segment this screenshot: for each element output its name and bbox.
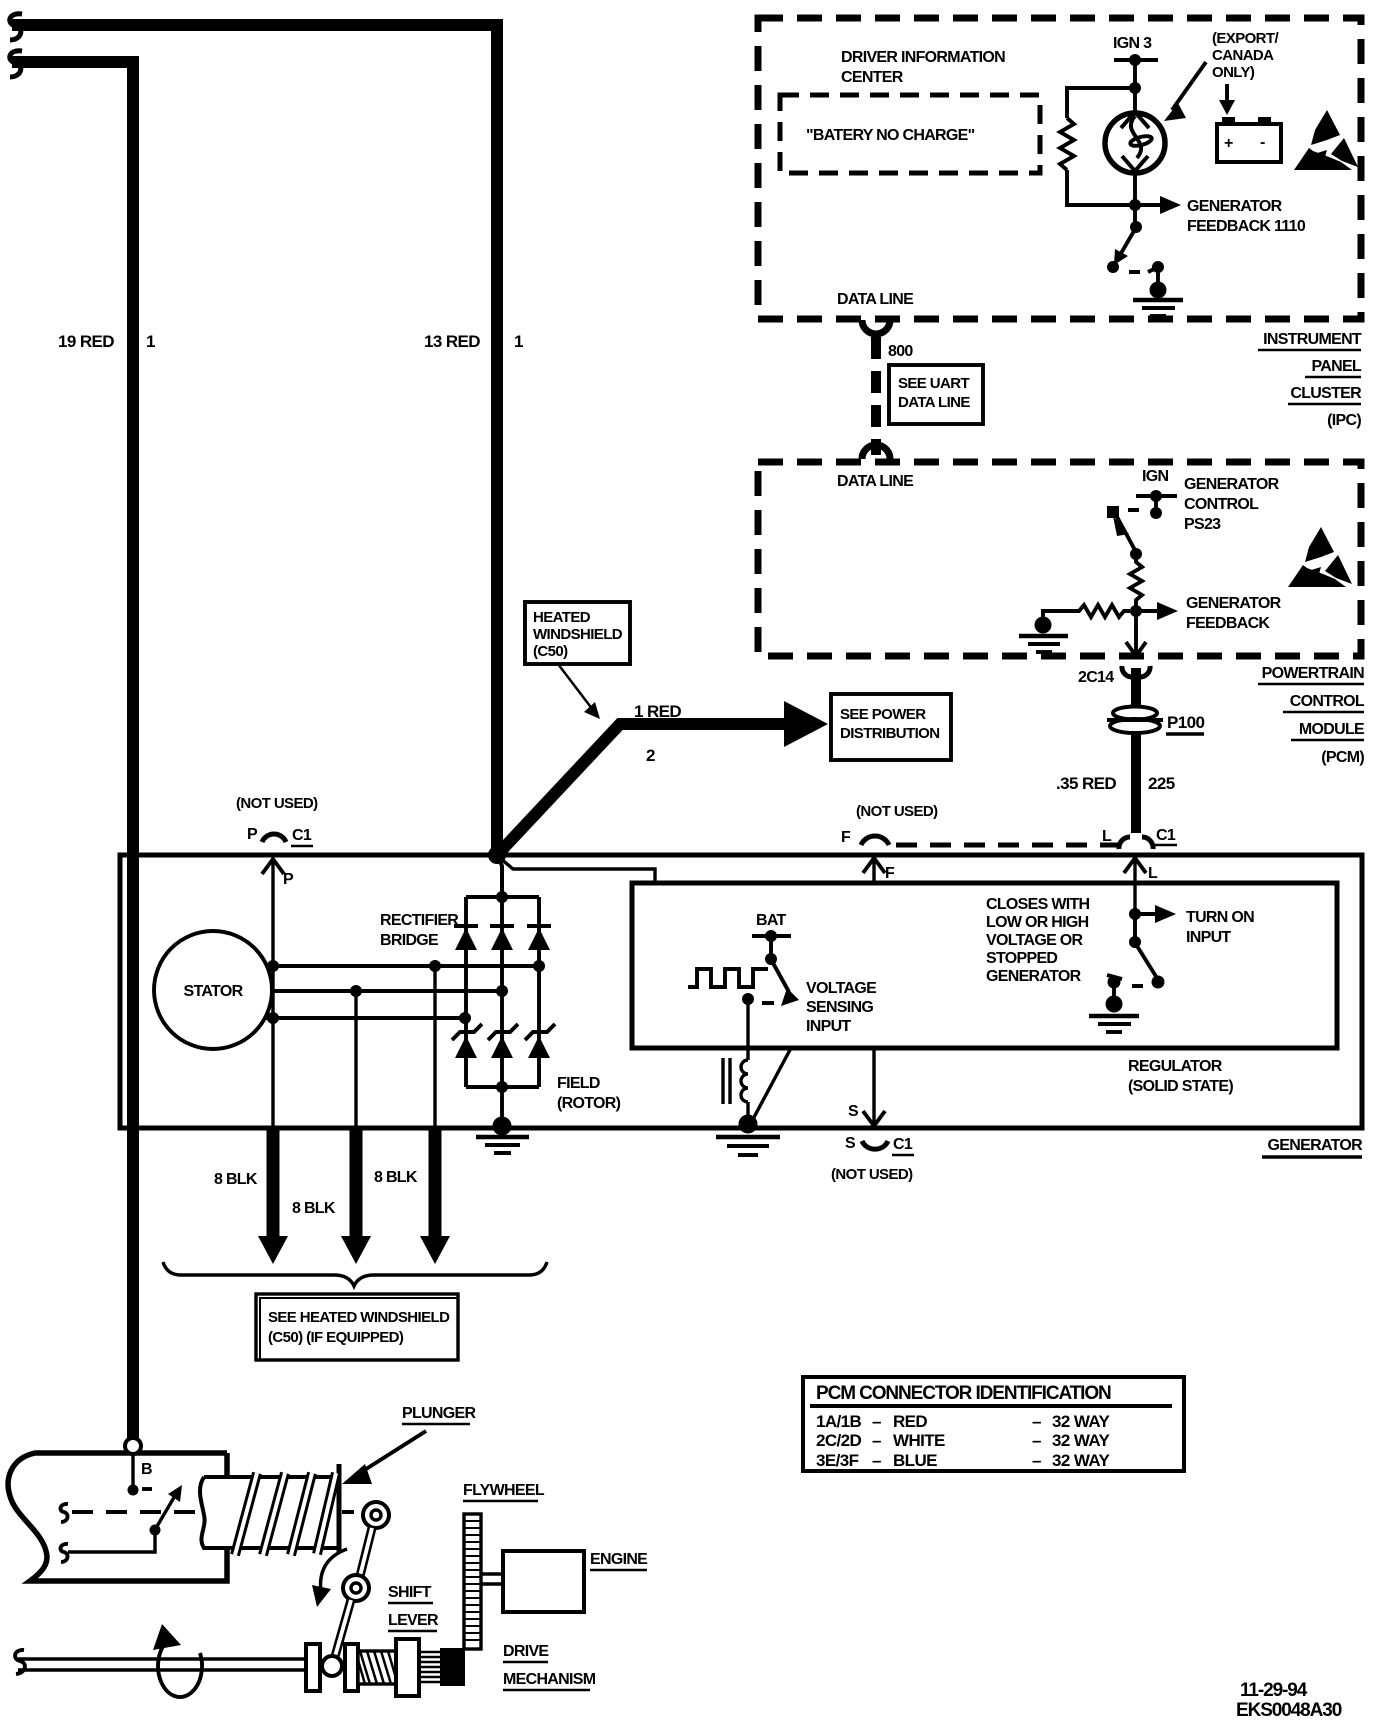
wire S-hook lower contact [61, 1544, 68, 1562]
shift lever lower pivot [343, 1575, 369, 1601]
svg-text:CONTROL: CONTROL [1290, 693, 1365, 710]
wire 1 RED to power distribution (thick with arrow) [499, 701, 828, 853]
svg-text:POWERTRAIN: POWERTRAIN [1262, 665, 1364, 682]
connector 800 half-circle (PCM side) [862, 445, 890, 459]
svg-text:HEATED: HEATED [533, 609, 591, 626]
label FLYWHEEL [463, 1482, 545, 1501]
svg-text:(PCM): (PCM) [1321, 749, 1364, 766]
svg-text:INSTRUMENT: INSTRUMENT [1263, 331, 1362, 348]
svg-text:-: - [1260, 134, 1265, 151]
node junction 13RED/1RED at generator top [488, 846, 506, 864]
stator [154, 931, 272, 1049]
svg-text:SHIFT: SHIFT [388, 1584, 432, 1601]
svg-text:2C/2D: 2C/2D [816, 1431, 862, 1450]
resistor PCM horizontal [1063, 605, 1130, 617]
arrow shaft rotation [153, 1624, 202, 1697]
wire feedback arrow right [1135, 196, 1181, 214]
wire junction to regulator top [500, 858, 655, 882]
svg-text:STOPPED: STOPPED [986, 950, 1057, 967]
svg-text:–: – [1032, 1431, 1041, 1450]
svg-text:(C50): (C50) [533, 643, 568, 660]
svg-text:LEVER: LEVER [388, 1612, 439, 1629]
callout SEE POWER DISTRIBUTION [831, 694, 951, 760]
node phase dots [267, 960, 441, 1024]
svg-text:F: F [841, 829, 851, 846]
node PCM feedback junction [1130, 605, 1142, 617]
svg-text:"BATERY NO CHARGE": "BATERY NO CHARGE" [806, 127, 975, 144]
wire S-hook upper contact [61, 1504, 68, 1522]
svg-text:FEEDBACK: FEEDBACK [1186, 615, 1270, 632]
wire 800 UART data line (thick dashed) [871, 337, 881, 455]
wire switch to ground [1156, 267, 1160, 285]
svg-text:8 BLK: 8 BLK [374, 1169, 418, 1186]
resistor PCM vertical [1130, 554, 1142, 608]
svg-text:REGULATOR: REGULATOR [1128, 1058, 1223, 1075]
svg-text:PS23: PS23 [1184, 516, 1221, 533]
svg-text:(NOT USED): (NOT USED) [831, 1166, 913, 1183]
label DRIVER INFORMATION CENTER [841, 49, 1005, 86]
svg-text:C1: C1 [1156, 827, 1176, 844]
svg-text:SEE UART: SEE UART [898, 375, 969, 392]
svg-text:.35 RED: .35 RED [1056, 774, 1116, 793]
svg-text:225: 225 [1148, 774, 1175, 793]
svg-text:8 BLK: 8 BLK [292, 1200, 336, 1217]
node IGN 3 terminal [1113, 35, 1158, 66]
svg-text:FLYWHEEL: FLYWHEEL [463, 1482, 545, 1499]
coil winding 1 [235, 1473, 257, 1555]
svg-text:F: F [885, 865, 895, 882]
label GENERATOR FEEDBACK (PCM) [1186, 595, 1282, 632]
svg-text:IGN 3: IGN 3 [1113, 35, 1152, 52]
label 13 RED 1 [424, 332, 523, 351]
wire rectifier to case ground [500, 1087, 504, 1126]
svg-text:GENERATOR: GENERATOR [1184, 476, 1280, 493]
svg-text:(IPC): (IPC) [1327, 412, 1361, 429]
wire PCM node down to 2C14 [1126, 611, 1146, 656]
label VOLTAGE SENSING INPUT [806, 980, 877, 1035]
drive splines [419, 1648, 465, 1686]
svg-text:–: – [1032, 1451, 1041, 1470]
callout SEE HEATED WINDSHIELD (C50) (IF EQUIPPED) [256, 1294, 458, 1360]
pivot ball [322, 1656, 342, 1676]
shift lever upper pivot [363, 1502, 389, 1528]
node B terminal [125, 1438, 152, 1496]
wire IGN down [1154, 496, 1158, 513]
svg-text:BRIDGE: BRIDGE [380, 932, 439, 949]
ESD symbol (IPC) [1294, 110, 1358, 170]
callout SEE UART DATA LINE [889, 365, 983, 424]
svg-text:L: L [1148, 865, 1158, 882]
label DRIVE MECHANISM [503, 1643, 596, 1690]
svg-text:PLUNGER: PLUNGER [402, 1405, 476, 1422]
node lamp top junction [1129, 82, 1141, 94]
svg-text:1A/1B: 1A/1B [816, 1412, 862, 1431]
wire dropper C (8 BLK) [433, 966, 436, 1128]
wire sensing to ground with field coil [723, 999, 748, 1122]
diode D6 bottom (avalanche) [525, 1024, 555, 1058]
wire to regulator ground [1112, 982, 1116, 1000]
brace harness group [163, 1262, 547, 1286]
svg-text:DRIVER INFORMATION: DRIVER INFORMATION [841, 49, 1005, 66]
svg-text:LOW OR HIGH: LOW OR HIGH [986, 914, 1089, 931]
connector 800 half-circle (IPC side) [862, 320, 890, 334]
svg-text:MODULE: MODULE [1299, 721, 1365, 738]
svg-text:SEE POWER: SEE POWER [840, 706, 926, 723]
arrow export to battery [1219, 84, 1235, 115]
ground generator case [476, 1117, 529, 1154]
svg-text:1: 1 [146, 332, 155, 351]
wire 8 BLK arrow B [341, 1128, 371, 1264]
svg-text:B: B [141, 1461, 152, 1478]
shift lever link [360, 1528, 372, 1576]
label EXPORT/CANADA ONLY [1212, 30, 1279, 81]
svg-text:C1: C1 [292, 827, 312, 844]
wire P100 to C1 (thick, .35 RED 225) [1131, 733, 1141, 833]
regulator box [632, 883, 1337, 1048]
wire 19 RED feed (thick, to starter B terminal) [10, 51, 133, 1438]
svg-text:DRIVE: DRIVE [503, 1643, 549, 1660]
ground PCM [1019, 617, 1068, 653]
svg-text:BLUE: BLUE [893, 1451, 937, 1470]
node BAT terminal [752, 912, 791, 942]
engine box [503, 1551, 584, 1612]
label INSTRUMENT PANEL CLUSTER (IPC) [1258, 331, 1362, 429]
svg-text:TURN ON: TURN ON [1186, 909, 1254, 926]
resistor R lamp shunt [1060, 118, 1074, 170]
diode D2 top [490, 926, 514, 950]
flywheel gear [464, 1514, 481, 1649]
switch starter solenoid contacts [68, 1485, 182, 1552]
starter solenoid housing [8, 1453, 227, 1581]
svg-text:P100: P100 [1167, 713, 1204, 732]
wire 8 BLK arrow A [258, 1128, 288, 1264]
svg-text:IGN: IGN [1142, 468, 1168, 485]
connector S C1 (not used) [831, 1135, 914, 1183]
generator box [120, 855, 1362, 1128]
svg-text:CANADA: CANADA [1212, 47, 1274, 64]
coil winding 2 [263, 1473, 285, 1555]
wire P into generator [262, 859, 294, 1128]
label ENGINE [590, 1551, 648, 1570]
svg-text:13 RED: 13 RED [424, 332, 480, 351]
waveform PWM symbol [688, 969, 768, 987]
collar 1 [306, 1644, 320, 1691]
node generator feedback junction [1129, 199, 1141, 211]
wire second to ground (diagonal) [752, 1048, 791, 1121]
connector P C1 (not used) [236, 795, 318, 846]
wire 2C14 to P100 (thick) [1131, 668, 1141, 706]
arrow curved (plunger motion) [312, 1549, 347, 1607]
switch voltage sensing [742, 953, 799, 1006]
node below switch [1130, 548, 1142, 560]
ground IPC [1133, 282, 1183, 317]
arrow heated windshield callout [558, 664, 600, 719]
label PLUNGER with arrow [342, 1405, 476, 1484]
svg-text:1 RED: 1 RED [634, 702, 681, 721]
table PCM connector identification [803, 1377, 1184, 1471]
diode D4 bottom (avalanche) [452, 1024, 482, 1058]
switch generator control PS23 [1107, 506, 1162, 552]
svg-text:S: S [845, 1135, 856, 1152]
svg-text:32 WAY: 32 WAY [1052, 1451, 1110, 1470]
svg-text:RED: RED [893, 1412, 927, 1431]
label GENERATOR CONTROL PS23 [1184, 476, 1280, 533]
svg-text:WINDSHIELD: WINDSHIELD [533, 626, 623, 643]
wire S exit [848, 1048, 885, 1126]
svg-text:CENTER: CENTER [841, 69, 904, 86]
diode D1 top [454, 926, 478, 950]
node turn on tap [1129, 908, 1141, 920]
svg-text:(C50) (IF EQUIPPED): (C50) (IF EQUIPPED) [268, 1329, 404, 1346]
svg-text:3E/3F: 3E/3F [816, 1451, 859, 1470]
svg-text:–: – [872, 1451, 881, 1470]
lamp charge indicator [1105, 88, 1165, 205]
label TURN ON INPUT [1186, 909, 1254, 946]
svg-text:DATA LINE: DATA LINE [898, 394, 970, 411]
svg-text:STATOR: STATOR [184, 983, 244, 1000]
wire solenoid axis dashed [72, 1510, 364, 1514]
label RECTIFIER BRIDGE [380, 912, 459, 949]
label GENERATOR FEEDBACK 110 [1187, 198, 1306, 235]
drive clutch hatched [358, 1651, 396, 1684]
label 19 RED 1 [58, 332, 155, 351]
wire node to switch [1133, 205, 1137, 227]
svg-text:PCM CONNECTOR IDENTIFICATION: PCM CONNECTOR IDENTIFICATION [816, 1383, 1111, 1404]
svg-text:800: 800 [888, 343, 913, 360]
coil end plate [337, 1464, 342, 1553]
svg-text:(EXPORT/: (EXPORT/ [1212, 30, 1279, 47]
svg-text:–: – [872, 1412, 881, 1431]
switch turn on [1107, 914, 1165, 989]
telltale message dashed box "BATERY NO CHARGE" [780, 95, 1040, 173]
wire harness dashed line F to L [896, 843, 1118, 848]
collar 2 [345, 1644, 358, 1691]
engine coupling shaft [481, 1574, 503, 1584]
wire feedback arrow right (PCM) [1136, 602, 1178, 620]
node rectifier column taps [459, 960, 545, 1024]
label .35 RED 225 [1056, 774, 1175, 793]
svg-text:2: 2 [646, 746, 655, 765]
powertrain control module dashed box [758, 462, 1361, 656]
svg-text:EKS0048A30: EKS0048A30 [1236, 1700, 1342, 1721]
svg-text:19 RED: 19 RED [58, 332, 114, 351]
svg-text:MECHANISM: MECHANISM [503, 1671, 596, 1688]
wire L entry [1124, 858, 1158, 914]
wire BAT down [769, 936, 773, 959]
wire rectifier feed from junction [498, 856, 502, 897]
wire turn on arrow [1135, 905, 1176, 923]
svg-text:C1: C1 [893, 1136, 913, 1153]
wire F entry [863, 858, 895, 883]
svg-text:S: S [848, 1103, 859, 1120]
wire resistor to ground (PCM) [1043, 611, 1063, 620]
svg-text:PANEL: PANEL [1311, 358, 1361, 375]
svg-text:1: 1 [514, 332, 523, 351]
rectifier bridge rails [466, 891, 539, 1093]
ground regulator left [716, 1115, 780, 1156]
label REGULATOR (SOLID STATE) [1128, 1058, 1233, 1095]
shift lever lower link [334, 1600, 351, 1660]
svg-text:–: – [872, 1431, 881, 1450]
coil winding 3 [291, 1473, 312, 1555]
label FIELD (ROTOR) [557, 1075, 621, 1112]
svg-text:DATA LINE: DATA LINE [837, 473, 914, 490]
svg-text:DATA LINE: DATA LINE [837, 291, 914, 308]
svg-text:ONLY): ONLY) [1212, 64, 1255, 81]
svg-text:L: L [1102, 828, 1112, 845]
collar 3 [396, 1639, 419, 1696]
svg-text:DISTRIBUTION: DISTRIBUTION [840, 725, 939, 742]
svg-text:2C14: 2C14 [1078, 669, 1114, 686]
svg-text:+: + [1224, 135, 1233, 152]
connector 2C14 [1078, 666, 1150, 686]
svg-text:INPUT: INPUT [806, 1018, 851, 1035]
instrument panel cluster dashed box [758, 18, 1361, 319]
label CLOSES WITH LOW OR HIGH VOLTAGE OR STOPPED GENERATOR [986, 896, 1090, 985]
svg-text:GENERATOR: GENERATOR [1186, 595, 1282, 612]
solenoid coil body [200, 1477, 339, 1548]
callout HEATED WINDSHIELD (C50) [525, 602, 630, 664]
svg-text:32 WAY: 32 WAY [1052, 1431, 1110, 1450]
svg-text:P: P [283, 871, 294, 888]
svg-text:FEEDBACK 1110: FEEDBACK 1110 [1187, 218, 1306, 235]
svg-text:INPUT: INPUT [1186, 929, 1231, 946]
coil winding 4 [317, 1473, 336, 1554]
label 1 RED / 2 [634, 702, 681, 765]
ESD symbol (PCM) [1288, 527, 1352, 587]
svg-text:11-29-94: 11-29-94 [1240, 1680, 1308, 1701]
label POWERTRAIN CONTROL MODULE (PCM) [1258, 665, 1365, 766]
wire 13 RED feed (thick, top horizontal then down to generator) [10, 14, 497, 852]
svg-text:P: P [247, 826, 258, 843]
wire IGN3 to lamp node [1133, 60, 1137, 90]
svg-text:BAT: BAT [756, 912, 787, 929]
svg-text:FIELD: FIELD [557, 1075, 600, 1092]
svg-text:RECTIFIER: RECTIFIER [380, 912, 459, 929]
switch IPC feedback [1107, 221, 1164, 273]
svg-text:SENSING: SENSING [806, 999, 873, 1016]
svg-text:WHITE: WHITE [893, 1431, 945, 1450]
connector P100 inline [1107, 707, 1204, 735]
node IGN terminal (PCM) [1136, 468, 1177, 502]
svg-text:32 WAY: 32 WAY [1052, 1412, 1110, 1431]
arrow export to lamp [1164, 62, 1206, 121]
wire stator phase 1 [266, 964, 541, 968]
diode D3 top [527, 926, 551, 950]
svg-text:(NOT USED): (NOT USED) [856, 803, 938, 820]
shaft armature [15, 1650, 307, 1674]
svg-text:(SOLID STATE): (SOLID STATE) [1128, 1078, 1233, 1095]
svg-text:CLUSTER: CLUSTER [1290, 385, 1362, 402]
svg-text:GENERATOR: GENERATOR [986, 968, 1082, 985]
svg-text:–: – [1032, 1412, 1041, 1431]
wire stator phase 2 [271, 989, 502, 993]
wire stator phase 3 [266, 1016, 465, 1020]
ground regulator right [1089, 996, 1139, 1033]
wire resistor branch left [1067, 88, 1135, 118]
diode D5 bottom (avalanche) [488, 1024, 518, 1058]
svg-text:GENERATOR: GENERATOR [1268, 1137, 1364, 1154]
connector L C1 at generator [1102, 827, 1177, 849]
svg-text:CLOSES WITH: CLOSES WITH [986, 896, 1090, 913]
label GENERATOR [1262, 1137, 1363, 1157]
connector F (not used) [841, 803, 938, 846]
svg-text:VOLTAGE: VOLTAGE [806, 980, 877, 997]
wire 8 BLK arrow C [420, 1128, 450, 1264]
svg-text:(NOT USED): (NOT USED) [236, 795, 318, 812]
svg-text:SEE HEATED WINDSHIELD: SEE HEATED WINDSHIELD [268, 1309, 450, 1326]
svg-text:VOLTAGE OR: VOLTAGE OR [986, 932, 1084, 949]
svg-text:8 BLK: 8 BLK [214, 1171, 258, 1188]
svg-text:ENGINE: ENGINE [590, 1551, 648, 1568]
svg-text:(ROTOR): (ROTOR) [557, 1095, 621, 1112]
svg-text:CONTROL: CONTROL [1184, 496, 1259, 513]
wire dropper B (8 BLK) [354, 991, 357, 1128]
svg-text:GENERATOR: GENERATOR [1187, 198, 1283, 215]
wire resistor to feedback node [1067, 170, 1135, 205]
battery export symbol [1217, 117, 1281, 162]
label SHIFT LEVER [388, 1584, 439, 1631]
